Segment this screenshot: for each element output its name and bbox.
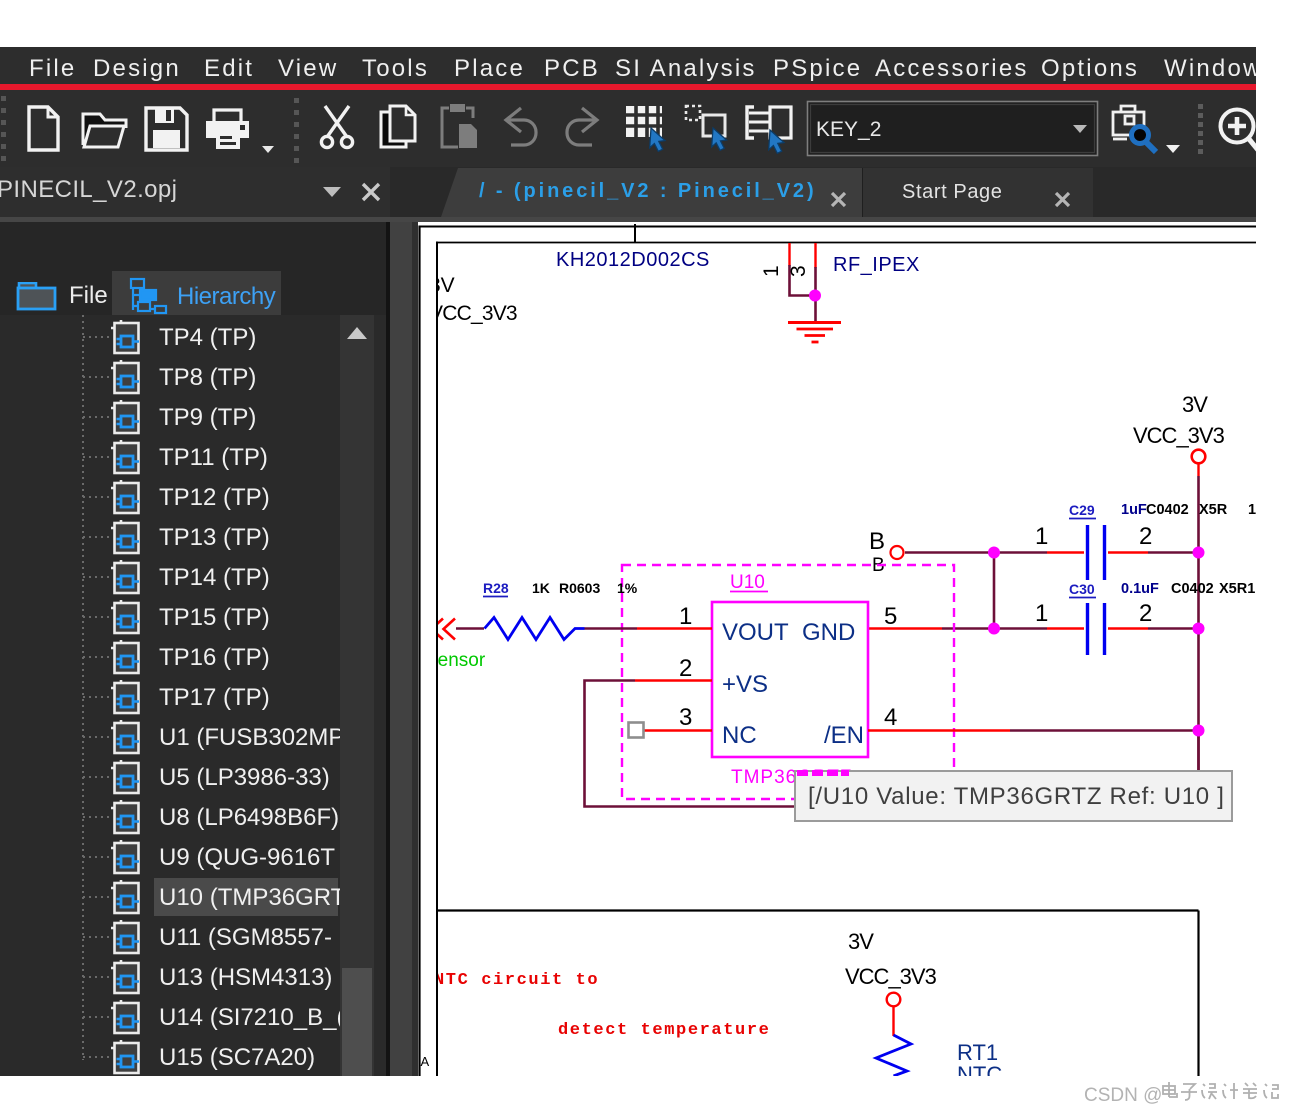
svg-text:CSDN @: CSDN @ (1084, 1085, 1162, 1106)
svg-text:1: 1 (1248, 502, 1256, 518)
svg-text:2: 2 (1139, 523, 1152, 550)
svg-text:1: 1 (1035, 523, 1048, 550)
svg-text:detect temperature: detect temperature (558, 1021, 770, 1040)
svg-text:1: 1 (760, 265, 783, 277)
svg-text:VOUT: VOUT (722, 619, 789, 646)
svg-text:2: 2 (1139, 600, 1152, 627)
svg-text:X5R1: X5R1 (1219, 581, 1255, 597)
svg-text:X5R: X5R (1199, 502, 1228, 518)
svg-text:1: 1 (1035, 600, 1048, 627)
svg-text:RF_IPEX: RF_IPEX (833, 254, 920, 276)
svg-text:GND: GND (802, 619, 855, 646)
svg-text:3V: 3V (848, 929, 874, 954)
svg-text:1uF: 1uF (1121, 502, 1147, 518)
svg-text:NC: NC (722, 722, 757, 749)
svg-text:5: 5 (884, 603, 897, 630)
svg-text:3V: 3V (429, 274, 455, 297)
svg-text:[/U10 Value: TMP36GRTZ Ref: U1: [/U10 Value: TMP36GRTZ Ref: U10 ] (808, 783, 1225, 810)
svg-text:R28: R28 (483, 580, 509, 596)
svg-text:0.1uF: 0.1uF (1121, 581, 1159, 597)
svg-text:3V: 3V (1182, 392, 1208, 417)
svg-text:C0402: C0402 (1171, 581, 1214, 597)
svg-text:A: A (421, 1054, 430, 1069)
svg-text:C0402: C0402 (1146, 502, 1189, 518)
svg-text:+VS: +VS (722, 671, 768, 698)
svg-text:4: 4 (884, 704, 897, 731)
svg-text:VCC_3V3: VCC_3V3 (845, 964, 937, 989)
svg-text:2: 2 (679, 655, 692, 682)
svg-text:U10: U10 (730, 572, 765, 593)
svg-text:/EN: /EN (824, 722, 864, 749)
svg-text:VCC_3V3: VCC_3V3 (429, 302, 517, 325)
svg-text:KH2012D002CS: KH2012D002CS (556, 249, 710, 271)
svg-text:C29: C29 (1069, 502, 1095, 518)
svg-text:Sensor: Sensor (425, 650, 486, 671)
svg-text:3: 3 (679, 704, 692, 731)
svg-text:NTC: NTC (957, 1062, 1002, 1076)
svg-text:R0603: R0603 (559, 580, 600, 596)
svg-text:C30: C30 (1069, 581, 1095, 597)
svg-text:NTC circuit to: NTC circuit to (434, 971, 599, 990)
svg-text:B: B (869, 528, 885, 555)
svg-text:1K: 1K (532, 580, 550, 596)
svg-text:1: 1 (679, 603, 692, 630)
svg-text:VCC_3V3: VCC_3V3 (1133, 423, 1225, 448)
svg-text:3: 3 (787, 265, 810, 277)
svg-text:1%: 1% (617, 580, 638, 596)
svg-text:KEY_2: KEY_2 (816, 118, 881, 141)
